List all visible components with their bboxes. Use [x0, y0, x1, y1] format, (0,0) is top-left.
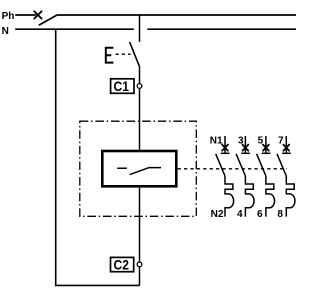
pole 2 blade: [236, 154, 245, 176]
pole 1 blade: [216, 154, 225, 176]
relay box U1: [102, 151, 176, 186]
node C2 circle: [137, 262, 142, 267]
pole 2 breaker X mark: [243, 145, 249, 151]
wire C1 to relay box: [139, 89, 141, 150]
pole 2 fixed contact bar: [241, 152, 250, 154]
pole 1 breaker X mark: [222, 145, 228, 151]
wire C2 to bottom: [139, 267, 141, 285]
svg-text:N2: N2: [211, 209, 224, 220]
svg-text:8: 8: [277, 209, 283, 220]
wire relay box to C2: [139, 188, 141, 262]
pole 3 fixed contact bar: [262, 152, 271, 154]
wire N line right segment: [147, 28, 296, 30]
switch E blade: [130, 42, 140, 67]
coil terminal C2 box: [111, 257, 134, 272]
pole 1 fixed contact bar: [221, 152, 230, 154]
svg-text:N: N: [2, 26, 9, 37]
coil terminal C1 box: [111, 79, 134, 94]
label E: [105, 47, 114, 64]
svg-text:6: 6: [257, 209, 263, 220]
svg-text:4: 4: [237, 209, 243, 220]
svg-text:C1: C1: [114, 79, 130, 94]
wire control vertical from Ph: [139, 15, 141, 42]
wire N line left segment: [15, 28, 134, 30]
svg-text:N1: N1: [210, 136, 223, 147]
pole 2 thermal element: [245, 176, 254, 217]
pole 1 thermal element: [225, 176, 234, 217]
relay contact symbol: [117, 168, 161, 175]
pole 3 thermal element: [266, 176, 275, 217]
pole 3 stem: [265, 136, 267, 153]
pole 4 fixed contact bar: [282, 152, 291, 154]
mechanical link E dashes: [116, 53, 131, 55]
wire Ph line right segment: [57, 14, 297, 16]
switch blade on Ph line: [39, 15, 57, 25]
pole 4 blade: [277, 154, 286, 176]
breaker X mark on Ph line: [34, 11, 41, 18]
mechanical link to poles dashes: [178, 168, 287, 170]
pole 4 stem: [285, 136, 287, 153]
node C1 circle: [137, 84, 142, 89]
pole 3 breaker X mark: [263, 145, 269, 151]
pole 4 thermal element: [286, 176, 295, 217]
enclosure dash-dot box: [80, 121, 197, 216]
pole 2 stem: [244, 136, 246, 153]
wire blade to C1 node: [139, 67, 141, 84]
wire N drop and bottom return: [56, 29, 140, 285]
pole 4 breaker X mark: [283, 145, 289, 151]
pole 3 blade: [257, 154, 266, 176]
wire Ph line left segment: [15, 14, 36, 16]
svg-text:C2: C2: [114, 257, 129, 272]
pole 1 stem: [224, 136, 226, 153]
svg-text:Ph: Ph: [2, 11, 15, 22]
